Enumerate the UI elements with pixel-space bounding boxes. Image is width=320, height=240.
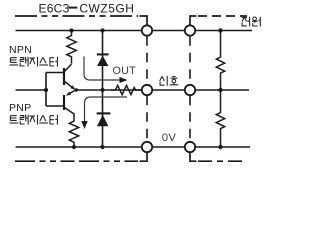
diode D2 (clamp to 0V) (97, 113, 111, 126)
border corner bottom at x=190 (189, 152, 196, 162)
label transistor (kr) line1 (10, 57, 58, 67)
load resistor chain vertical (216, 31, 224, 148)
label power (kr) (242, 17, 261, 27)
wire: base bus vertical (46, 73, 64, 107)
svg-text:E6C3: E6C3 (39, 1, 70, 15)
current flow arrow (source, gray) (84, 57, 128, 84)
resistor R2 (PNP collector) (69, 114, 78, 148)
border corner bottom at x=147 (140, 152, 148, 162)
svg-text:NPN: NPN (9, 44, 32, 56)
wire: power rail (16, 30, 253, 32)
label transistor (kr) line2 (10, 115, 58, 125)
wire: signal rail (76, 89, 249, 91)
dashed box border top (load side) (198, 15, 247, 17)
current flow arrow (sink, gray) (81, 97, 127, 129)
transistor Q2 PNP (64, 90, 76, 114)
connector dashed line x=190 (189, 36, 191, 141)
border corner top at x=147 (140, 15, 148, 25)
dashed box border bottom (encoder side) (15, 160, 138, 162)
svg-text:0V: 0V (162, 132, 177, 144)
connector dashed line x=147 (146, 36, 148, 141)
svg-text:PNP: PNP (9, 102, 32, 114)
diode D1 (clamp to +V) (97, 54, 109, 66)
resistor R3 (output series) (111, 85, 141, 94)
transistor Q1 NPN (64, 64, 76, 90)
connector terminal circles (142, 25, 152, 35)
dashed box border bottom (load side) (198, 160, 247, 162)
junction dots (69, 28, 73, 32)
wire: 0V rail (16, 146, 251, 148)
border corner top at x=190 (189, 15, 196, 25)
svg-text:OUT: OUT (113, 65, 137, 77)
label signal (kr) (160, 76, 179, 86)
dashed box border top (encoder side) (15, 15, 138, 17)
wire: base drive stub (16, 89, 47, 91)
resistor R1 (collector pull-up) (67, 31, 76, 64)
svg-text:CWZ5GH: CWZ5GH (79, 1, 134, 15)
wire: clamp diode column (102, 31, 104, 148)
